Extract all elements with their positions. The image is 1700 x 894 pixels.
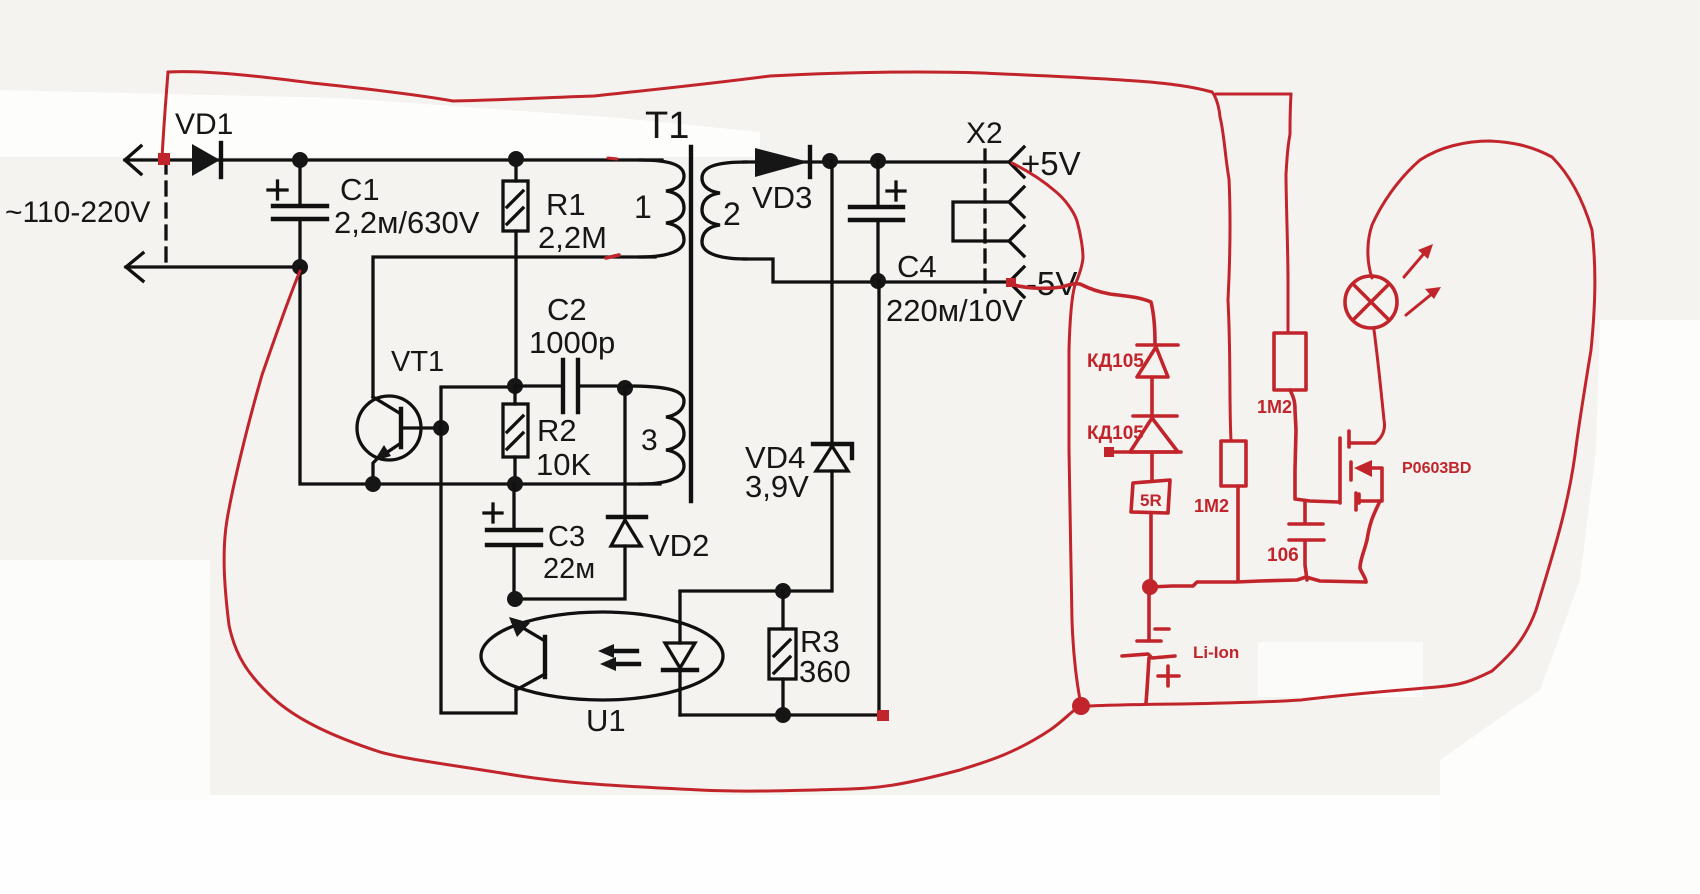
svg-text:3,9V: 3,9V: [745, 469, 809, 504]
node VT1 emitter on rail: [365, 476, 381, 492]
wire red drain up to lamp: [1374, 330, 1385, 443]
resistor 1M2 right: [1274, 333, 1306, 390]
diode VD3: [755, 147, 810, 177]
resistor 5R: [1131, 480, 1170, 580]
resistor 1M2 left: [1221, 441, 1246, 581]
svg-text:+5V: +5V: [1021, 145, 1081, 182]
label C4 value 220м/10V: [886, 293, 1023, 328]
label 1M2 left: [1194, 496, 1229, 516]
node R1 top: [508, 151, 524, 167]
label C2: [547, 292, 587, 327]
lamp LED circle: [1345, 276, 1397, 328]
svg-text:106: 106: [1267, 545, 1299, 566]
svg-text:VD2: VD2: [649, 528, 709, 563]
dashed input boundary: [164, 160, 167, 267]
label VD4: [745, 440, 805, 475]
red node blob on top rail: [158, 153, 170, 165]
wire: left rail x=300 down and primary bottom rail y=484: [300, 267, 660, 484]
node C4 bottom: [870, 273, 886, 289]
label T1: [645, 105, 689, 147]
X2 pin arrow mid2: [1009, 226, 1024, 256]
svg-text:2,2M: 2,2M: [538, 220, 607, 255]
wire red envelope bottom: [224, 520, 1080, 791]
label 1M2 right: [1257, 397, 1292, 417]
svg-text:C3: C3: [548, 521, 585, 553]
wire red envelope left riser: [162, 72, 168, 158]
lamp arrow 2: [1406, 287, 1441, 315]
wire red drop to 1M2 left: [1212, 92, 1231, 441]
svg-text:VT1: VT1: [391, 346, 444, 378]
svg-text:R1: R1: [546, 187, 586, 222]
node top rail / C1: [292, 152, 308, 168]
red tick winding1 top: [608, 158, 617, 159]
capacitor C4: [850, 161, 905, 281]
label VT1: [391, 346, 444, 378]
node VT1 base: [433, 420, 449, 436]
U1 LED: [663, 592, 697, 715]
wire: bottom AC input y=267: [126, 265, 300, 268]
zener VD4: [680, 161, 852, 591]
node R3 top: [775, 583, 791, 599]
svg-text:R2: R2: [537, 413, 577, 448]
label C3: [548, 521, 585, 553]
node C2 right / winding3 / VD2: [617, 380, 633, 396]
capacitor 106: [1289, 501, 1324, 580]
wire red big right loop: [1088, 141, 1595, 706]
svg-text:C4: C4: [897, 249, 937, 284]
diode VD2: [516, 388, 646, 599]
svg-text:~110-220V: ~110-220V: [5, 196, 150, 229]
winding 3: [627, 386, 684, 484]
svg-text:VD3: VD3: [752, 180, 812, 215]
node C4 top: [870, 153, 886, 169]
X2 pin arrow +5V: [1009, 147, 1024, 177]
svg-text:КД105: КД105: [1087, 351, 1144, 372]
capacitor C3: [484, 484, 541, 599]
svg-text:220м/10V: 220м/10V: [886, 293, 1023, 328]
label КД105 #1: [1087, 351, 1144, 372]
wire red 1M2 right to gate: [1290, 390, 1338, 502]
wire: top AC input / primary top rail y=160: [125, 158, 662, 161]
red junction big dot: [1072, 697, 1090, 715]
label C2 value 1000p: [529, 325, 615, 360]
label R1: [546, 187, 586, 222]
label VD2: [649, 528, 709, 563]
svg-text:C1: C1: [340, 172, 380, 207]
wire red drop to 1M2 right: [1286, 94, 1291, 333]
label winding 1 pin: [634, 189, 652, 225]
label C4: [897, 249, 937, 284]
svg-text:1М2: 1М2: [1194, 496, 1229, 516]
wire red squiggle from C1 node: [227, 271, 300, 520]
wire: winding1 bottom to VT1 collector: [373, 257, 655, 397]
wire red charger bottom rail y~582: [1150, 577, 1366, 587]
capacitor C1: [268, 160, 327, 267]
capacitor C2: [515, 360, 625, 412]
label C1 value 2,2м/630V: [334, 205, 480, 240]
svg-text:1000p: 1000p: [529, 325, 615, 360]
transformer T1 core: [689, 147, 693, 501]
svg-text:360: 360: [799, 654, 851, 689]
label winding 2 pin: [723, 196, 741, 232]
input arrow bottom: [126, 253, 143, 281]
wire: winding2 top to VD3 and +5V rail y=162: [744, 160, 1009, 163]
label -5V: [1026, 265, 1077, 302]
red blob at black rail end: [877, 710, 889, 721]
wire red envelope top: [168, 72, 1212, 101]
node R2 bottom on rail: [507, 476, 523, 492]
label Li-Ion: [1193, 643, 1239, 662]
svg-text:1: 1: [634, 189, 652, 225]
svg-text:X2: X2: [966, 117, 1003, 150]
wire: base node down to optocoupler emitter: [441, 428, 516, 713]
U1 phototransistor: [509, 617, 545, 690]
label winding 3 pin: [641, 424, 658, 457]
resistor R1: [503, 160, 528, 386]
label 5R: [1140, 491, 1162, 510]
node bottom input / C1: [292, 259, 308, 275]
node C3/VD2/opto collector: [507, 591, 523, 607]
label ~110-220V: [5, 196, 150, 229]
U1 light arrows: [598, 644, 639, 671]
node VD3 / VD4 line: [822, 153, 838, 169]
svg-text:P0603BD: P0603BD: [1402, 460, 1471, 477]
label R3: [800, 624, 840, 659]
wire: base node up to feedback row y=387: [441, 387, 515, 428]
red tick winding1 bottom: [606, 255, 619, 258]
svg-text:C2: C2: [547, 292, 587, 327]
input arrow top: [125, 146, 141, 174]
label +5V: [1021, 145, 1081, 182]
resistor R3: [769, 591, 796, 715]
label P0603BD: [1402, 460, 1471, 477]
svg-text:T1: T1: [645, 105, 689, 147]
X2 pin arrow mid1: [1009, 187, 1024, 217]
optocoupler U1 ellipse: [481, 612, 723, 700]
label VD4 value 3,9V: [745, 469, 809, 504]
MOSFET P0603BD: [1340, 431, 1382, 582]
red junction dot above battery: [1142, 579, 1158, 595]
node R2 top / C2 left: [507, 378, 523, 394]
winding 1: [640, 160, 684, 257]
diode КД105 #2: [1104, 416, 1181, 480]
label R2 value 10K: [536, 447, 591, 482]
label C3 value 22м: [543, 553, 595, 585]
connector X2 dashed: [983, 150, 986, 292]
wire: winding2 bottom, step to -5V rail y=282: [744, 259, 1009, 282]
X2 pin arrow -5V: [1009, 267, 1024, 297]
svg-text:Li-Ion: Li-Ion: [1193, 643, 1239, 662]
svg-text:VD1: VD1: [175, 108, 233, 141]
svg-text:3: 3: [641, 424, 658, 457]
svg-text:22м: 22м: [543, 553, 595, 585]
label VD3: [752, 180, 812, 215]
label КД105 #2: [1087, 423, 1144, 444]
wire: -5V down to opto bottom rail: [680, 281, 879, 715]
svg-text:1М2: 1М2: [1257, 397, 1292, 417]
diode КД105 #1: [1137, 345, 1178, 414]
wire red from -5V to charger input: [1014, 284, 1155, 343]
label R1 value 2,2M: [538, 220, 607, 255]
X2 shell bracket: [953, 202, 1008, 241]
red mark at -5V tip: [1006, 278, 1016, 287]
node R3 bottom: [775, 707, 791, 723]
wire red top branch right: [1216, 93, 1291, 96]
lamp arrow 1: [1404, 244, 1433, 277]
svg-text:U1: U1: [586, 703, 626, 738]
battery Li-Ion: [1122, 590, 1179, 703]
svg-text:5R: 5R: [1140, 491, 1162, 510]
label U1: [586, 703, 626, 738]
svg-text:КД105: КД105: [1087, 423, 1144, 444]
svg-text:10K: 10K: [536, 447, 591, 482]
label C1: [340, 172, 380, 207]
diode VD1: [192, 143, 221, 177]
label VD1: [175, 108, 233, 141]
wire red from +5V curving down (left envelope of charger): [1012, 163, 1083, 700]
svg-text:2,2м/630V: 2,2м/630V: [334, 205, 480, 240]
label 106: [1267, 545, 1299, 566]
svg-text:2: 2: [723, 196, 741, 232]
label R3 value 360: [799, 654, 851, 689]
resistor R2: [503, 386, 528, 484]
transistor VT1: [357, 396, 441, 484]
label R2: [537, 413, 577, 448]
label X2: [966, 117, 1003, 150]
winding 2: [702, 162, 746, 259]
